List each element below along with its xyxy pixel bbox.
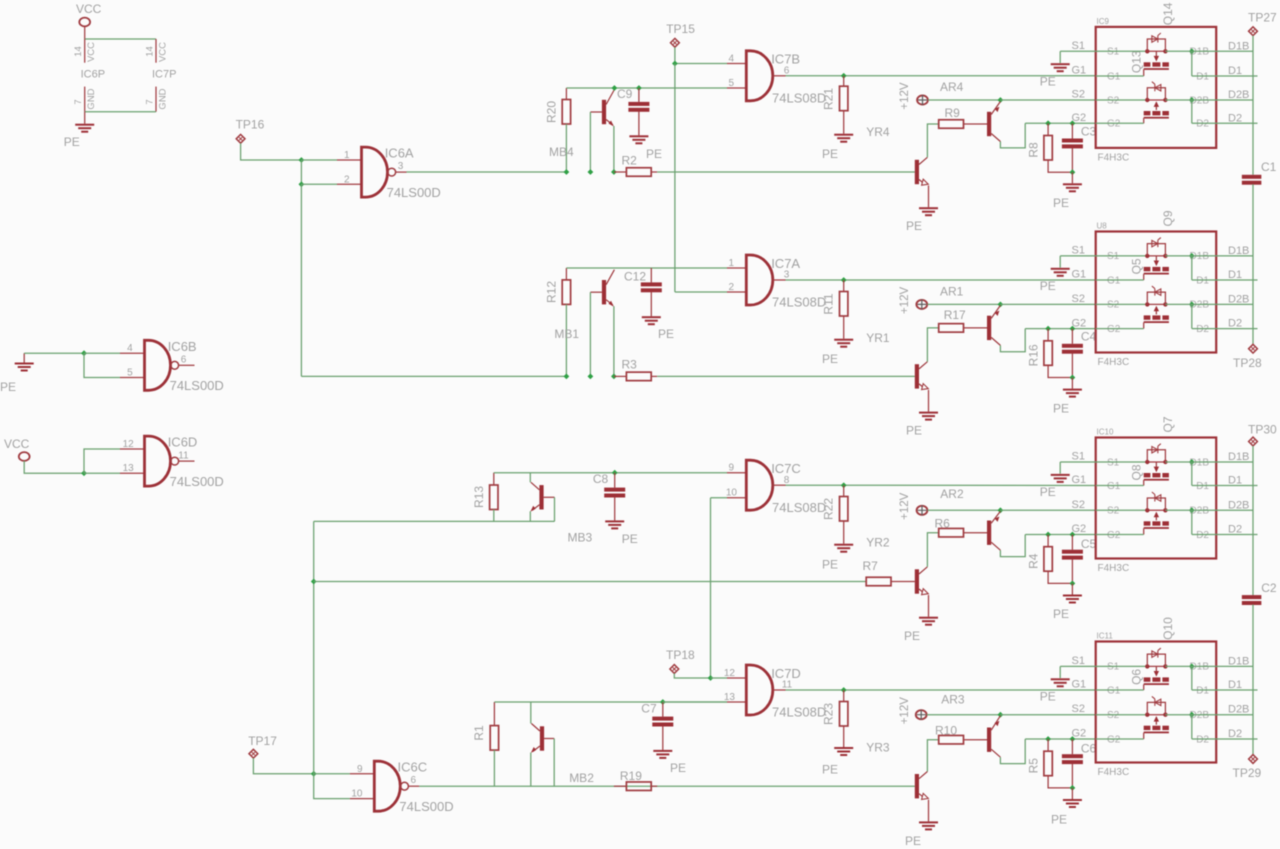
svg-text:Q9: Q9 (1161, 210, 1175, 226)
resistor R8 (1047, 123, 1049, 135)
svg-text:S2: S2 (1107, 95, 1120, 106)
svg-text:S2: S2 (1107, 506, 1120, 517)
svg-text:2: 2 (344, 174, 350, 185)
svg-text:AR4: AR4 (940, 80, 964, 94)
svg-text:VCC: VCC (76, 2, 102, 16)
IC6A pin 1 (337, 159, 362, 161)
wire (964, 123, 988, 125)
svg-text:F4H3C: F4H3C (1098, 357, 1130, 368)
svg-text:+12V: +12V (899, 286, 911, 314)
wire (24, 352, 84, 354)
wire (314, 773, 350, 775)
svg-text:Q10: Q10 (1161, 617, 1175, 640)
ground PE (1071, 788, 1073, 799)
junction (660, 699, 666, 705)
svg-text:YR2: YR2 (866, 536, 890, 550)
svg-text:8: 8 (784, 475, 790, 486)
wire (1000, 535, 1025, 557)
svg-text:D1: D1 (1228, 679, 1242, 691)
svg-text:C6: C6 (1081, 742, 1097, 756)
and gate IC7C 74LS08D (746, 460, 773, 510)
junction (299, 157, 305, 163)
junction (1070, 326, 1076, 332)
wire (1191, 462, 1193, 486)
nand gate IC6A 74LS00D (362, 147, 388, 197)
wire (1191, 666, 1193, 690)
svg-text:G2: G2 (1072, 112, 1087, 124)
svg-text:IC11: IC11 (1097, 632, 1114, 641)
wire rail (1252, 184, 1254, 344)
svg-text:D2: D2 (1196, 530, 1209, 541)
svg-text:G1: G1 (1072, 65, 1087, 77)
resistor R21 (843, 76, 845, 86)
svg-text:S1: S1 (1107, 251, 1120, 262)
svg-text:S2: S2 (1072, 89, 1085, 101)
junction (841, 277, 847, 283)
wire (613, 126, 615, 172)
junction (1189, 97, 1195, 103)
svg-text:MB2: MB2 (569, 771, 594, 785)
wire (84, 449, 120, 473)
svg-text:5: 5 (728, 78, 734, 89)
resistor R13 (493, 473, 495, 485)
svg-text:D2B: D2B (1228, 704, 1249, 716)
mosfet lower (1096, 714, 1148, 716)
junction (998, 507, 1004, 513)
svg-text:PE: PE (646, 147, 662, 161)
svg-text:YR1: YR1 (866, 331, 890, 345)
wire (241, 143, 302, 160)
wire (711, 497, 728, 499)
wire (84, 353, 120, 377)
wire (1000, 329, 1025, 352)
wire (613, 306, 615, 376)
svg-text:74LS08D: 74LS08D (772, 91, 826, 106)
ground PE (1071, 172, 1073, 183)
wire D2B (1165, 509, 1253, 511)
svg-text:11: 11 (782, 680, 793, 691)
wire (85, 111, 156, 113)
svg-text:Q6: Q6 (1130, 669, 1144, 685)
wire (300, 160, 302, 184)
junction (672, 61, 678, 67)
svg-text:R16: R16 (1026, 344, 1040, 366)
wire (1060, 50, 1096, 52)
transistor AR2 pnp (987, 521, 991, 545)
transistor AR2 npn (915, 569, 919, 593)
svg-text:PE: PE (1053, 401, 1069, 415)
svg-text:D2: D2 (1228, 112, 1242, 124)
transistor AR3 pnp (987, 728, 991, 752)
IC7A pin 1 (727, 267, 746, 269)
svg-text:PE: PE (822, 558, 838, 572)
wire D2B (1165, 714, 1253, 716)
wire (928, 99, 1000, 101)
wire (786, 484, 1096, 486)
wire (494, 472, 727, 474)
svg-text:R17: R17 (944, 308, 966, 322)
IC6D pin 12 (120, 448, 145, 450)
junction (1070, 785, 1076, 791)
mosfet lower (1096, 99, 1148, 101)
mosfet lower (1096, 303, 1148, 305)
svg-text:14: 14 (144, 46, 155, 57)
junction (564, 374, 570, 380)
svg-text:C3: C3 (1081, 124, 1097, 138)
ground PE (919, 617, 938, 619)
svg-text:6: 6 (411, 775, 417, 786)
svg-text:IC6C: IC6C (398, 760, 428, 775)
IC6A pin 2 (337, 183, 362, 185)
ground PE (834, 339, 853, 341)
wire (786, 75, 1096, 77)
wire (566, 267, 727, 269)
svg-text:G2: G2 (1107, 734, 1121, 745)
svg-text:G1: G1 (1107, 71, 1121, 82)
junction (1189, 48, 1195, 54)
wire (529, 473, 531, 483)
svg-text:R11: R11 (822, 293, 836, 314)
svg-text:IC9: IC9 (1097, 17, 1110, 26)
svg-text:S2: S2 (1072, 293, 1085, 305)
wire (964, 327, 988, 329)
wire (928, 509, 1001, 511)
svg-text:R12: R12 (545, 281, 559, 303)
svg-text:9: 9 (728, 463, 734, 474)
svg-text:G1: G1 (1072, 269, 1087, 281)
ground PE (653, 750, 672, 752)
wire (1000, 714, 1095, 716)
wire D1 (1192, 689, 1258, 691)
mosfet module IC10 F4H3C (1096, 438, 1217, 559)
junction (1070, 120, 1076, 126)
wire (1059, 462, 1061, 474)
wire (84, 26, 86, 39)
ground PE (1051, 268, 1070, 270)
junction (81, 350, 87, 356)
IC7A pin 3 output (773, 279, 786, 281)
svg-text:IC7B: IC7B (771, 52, 800, 67)
svg-text:7: 7 (144, 99, 155, 104)
svg-text:S1: S1 (1107, 662, 1120, 673)
junction (588, 169, 594, 175)
wire (657, 171, 915, 173)
svg-text:PE: PE (822, 147, 838, 161)
wire D2 (1192, 122, 1258, 124)
junction (564, 169, 570, 175)
svg-text:C8: C8 (593, 472, 609, 486)
svg-text:S1: S1 (1072, 244, 1085, 256)
wire (1000, 99, 1095, 101)
svg-text:12: 12 (724, 668, 736, 679)
mosfet module IC11 F4H3C (1096, 642, 1217, 763)
junction (636, 85, 642, 91)
svg-text:D1: D1 (1228, 65, 1242, 77)
junction (1070, 169, 1076, 175)
mosfet module U8 F4H3C (1096, 232, 1217, 353)
junction (1070, 375, 1076, 381)
svg-text:F4H3C: F4H3C (1098, 767, 1130, 778)
svg-text:VCC: VCC (86, 42, 97, 62)
svg-text:IC10: IC10 (1097, 428, 1114, 437)
svg-text:TP28: TP28 (1233, 356, 1262, 370)
resistor R11 (843, 280, 845, 292)
svg-text:1: 1 (344, 150, 350, 161)
svg-text:D1: D1 (1196, 685, 1209, 696)
ground PE (629, 135, 648, 137)
svg-text:+12V: +12V (899, 82, 911, 110)
ground PE (919, 821, 938, 823)
svg-text:R5: R5 (1026, 758, 1040, 774)
junction (311, 579, 317, 585)
svg-text:AR2: AR2 (940, 487, 964, 501)
IC6B pin 5 (120, 377, 145, 379)
svg-text:10: 10 (726, 488, 738, 499)
junction (1045, 736, 1051, 742)
junction (998, 97, 1004, 103)
junction (311, 771, 317, 777)
IC7P power pin GND 7 (155, 87, 157, 112)
svg-text:D1B: D1B (1228, 40, 1249, 52)
wire D1 (1192, 75, 1258, 77)
wire (675, 47, 727, 63)
wire (927, 303, 1000, 305)
svg-text:G2: G2 (1107, 530, 1121, 541)
ground PE (919, 412, 938, 414)
svg-text:AR3: AR3 (941, 693, 965, 707)
svg-text:D2B: D2B (1228, 499, 1249, 511)
ground PE (919, 207, 938, 209)
ground PE (1051, 678, 1070, 680)
junction (998, 302, 1004, 308)
svg-text:TP15: TP15 (666, 22, 695, 36)
svg-text:YR3: YR3 (866, 741, 890, 755)
svg-text:Q7: Q7 (1161, 416, 1175, 432)
wire (1000, 303, 1095, 305)
IC6D pin 11 output (179, 460, 195, 462)
IC7D pin 12 (727, 677, 746, 679)
wire (1059, 256, 1061, 268)
wire (553, 739, 555, 787)
svg-text:PE: PE (1040, 689, 1056, 703)
svg-text:S2: S2 (1107, 710, 1120, 721)
wire D2 (1192, 534, 1258, 536)
svg-text:IC6P: IC6P (81, 69, 105, 81)
svg-text:C9: C9 (617, 87, 633, 101)
wire (1059, 51, 1061, 63)
junction (1189, 507, 1195, 513)
wire (1191, 100, 1193, 123)
svg-text:D2: D2 (1196, 324, 1209, 335)
svg-text:PE: PE (904, 629, 920, 643)
svg-text:74LS08D: 74LS08D (772, 705, 826, 720)
svg-text:G1: G1 (1107, 685, 1121, 696)
wire D2 (1192, 738, 1258, 740)
svg-text:R20: R20 (545, 101, 559, 123)
ground PE (15, 363, 34, 365)
junction (1189, 712, 1195, 718)
svg-text:PE: PE (658, 327, 674, 341)
svg-text:1: 1 (728, 258, 734, 269)
svg-text:PE: PE (1053, 196, 1069, 210)
wire D2 (1192, 328, 1258, 330)
ground PE (1071, 583, 1073, 594)
wire (964, 739, 988, 741)
svg-text:PE: PE (906, 423, 922, 437)
resistor R16 (1047, 329, 1049, 341)
resistor R22 (843, 485, 845, 496)
junction (611, 169, 617, 175)
svg-text:R22: R22 (822, 498, 836, 520)
svg-text:Q5: Q5 (1130, 258, 1144, 274)
svg-text:U8: U8 (1097, 222, 1108, 231)
junction (611, 374, 617, 380)
svg-text:D2: D2 (1228, 524, 1242, 536)
resistor R1 (493, 702, 495, 726)
svg-text:3: 3 (784, 270, 790, 281)
svg-text:MB4: MB4 (549, 145, 574, 159)
IC7B pin 6 output (773, 75, 786, 77)
wire (1025, 122, 1096, 124)
transistor AR4 pnp (987, 112, 991, 136)
wire (1191, 510, 1193, 534)
svg-text:11: 11 (178, 450, 189, 461)
svg-text:R9: R9 (945, 106, 961, 120)
IC7D pin 11 output (773, 689, 786, 691)
svg-text:MB3: MB3 (568, 531, 593, 545)
mosfet lower (1096, 509, 1148, 511)
svg-text:Q8: Q8 (1130, 464, 1144, 480)
svg-text:C7: C7 (641, 702, 657, 716)
svg-text:TP30: TP30 (1248, 423, 1277, 437)
wire (530, 753, 532, 787)
IC7C pin 9 (727, 472, 746, 474)
svg-text:R1: R1 (472, 725, 486, 741)
svg-text:PE: PE (64, 135, 80, 149)
svg-text:R2: R2 (622, 154, 638, 168)
junction (841, 482, 847, 488)
wire (301, 183, 337, 185)
transistor AR4 npn (915, 160, 919, 184)
svg-text:TP18: TP18 (666, 648, 695, 662)
IC6C pin 6 output (409, 785, 420, 787)
svg-text:74LS00D: 74LS00D (170, 378, 224, 393)
junction (1070, 736, 1076, 742)
svg-text:R23: R23 (822, 703, 836, 725)
wire D2B (1165, 303, 1253, 305)
svg-text:74LS00D: 74LS00D (399, 799, 453, 814)
svg-text:S1: S1 (1107, 457, 1120, 468)
wire (301, 375, 566, 377)
and gate IC7A 74LS08D (746, 255, 773, 305)
resistor R20 (565, 88, 567, 100)
wire (253, 758, 313, 774)
svg-text:TP16: TP16 (236, 118, 265, 132)
wire (927, 328, 938, 362)
svg-text:TP29: TP29 (1233, 766, 1262, 780)
svg-text:F4H3C: F4H3C (1098, 152, 1130, 163)
wire (927, 124, 938, 157)
svg-text:S2: S2 (1072, 499, 1085, 511)
resistor R5 (1047, 739, 1049, 751)
wire D1B (1165, 50, 1253, 52)
mosfet module IC9 F4H3C (1096, 27, 1217, 148)
wire (530, 702, 532, 724)
svg-text:D1B: D1B (1228, 245, 1249, 257)
svg-text:C1: C1 (1261, 160, 1277, 174)
wire (1060, 461, 1096, 463)
wire D2B (1165, 99, 1253, 101)
IC6P power pin GND 7 (84, 87, 86, 112)
svg-text:S2: S2 (1107, 300, 1120, 311)
wire (674, 64, 676, 293)
wire (84, 472, 120, 474)
and gate IC7B 74LS08D (746, 51, 772, 101)
svg-text:G2: G2 (1107, 324, 1121, 335)
svg-text:G1: G1 (1107, 481, 1121, 492)
svg-text:5: 5 (127, 368, 133, 379)
svg-text:PE: PE (1040, 74, 1056, 88)
svg-text:D2B: D2B (1228, 89, 1249, 101)
wire (1060, 665, 1096, 667)
junction (841, 687, 847, 693)
wire (927, 533, 938, 567)
resistor R23 (843, 690, 845, 702)
IC6D pin 13 (120, 472, 145, 474)
svg-text:PE: PE (1053, 607, 1069, 621)
svg-text:VCC: VCC (4, 437, 30, 451)
wire rail (1252, 605, 1254, 755)
junction (1045, 532, 1051, 538)
svg-text:S1: S1 (1072, 655, 1085, 667)
svg-text:R8: R8 (1026, 142, 1040, 158)
svg-text:2: 2 (728, 282, 734, 293)
IC6C pin 9 (350, 773, 374, 775)
wire (84, 352, 120, 354)
ground PE (834, 747, 853, 749)
wire (1025, 738, 1096, 740)
wire (529, 511, 531, 521)
wire (1025, 328, 1096, 330)
wire (964, 532, 988, 534)
svg-text:C4: C4 (1081, 330, 1097, 344)
svg-text:74LS00D: 74LS00D (170, 474, 224, 489)
svg-text:D2B: D2B (1228, 293, 1249, 305)
wire (419, 785, 915, 787)
ground PE (642, 316, 661, 318)
wire (710, 498, 712, 678)
svg-text:3: 3 (398, 161, 404, 172)
ground PE (1051, 474, 1070, 476)
wire (1191, 256, 1193, 280)
wire (494, 701, 727, 703)
wire rail (1252, 446, 1254, 595)
svg-text:F4H3C: F4H3C (1098, 563, 1130, 574)
ground PE (1071, 378, 1073, 389)
svg-text:D2: D2 (1196, 119, 1209, 130)
svg-text:G1: G1 (1072, 474, 1087, 486)
svg-text:IC6B: IC6B (168, 339, 197, 354)
wire (674, 673, 710, 678)
junction (1189, 459, 1195, 465)
IC6P power pin VCC 14 (84, 39, 86, 63)
svg-text:12: 12 (123, 439, 135, 450)
svg-text:Q13: Q13 (1130, 50, 1144, 73)
wire rail (1252, 36, 1254, 175)
IC6A pin 3 output (396, 171, 407, 173)
svg-text:GND: GND (86, 88, 97, 109)
svg-text:S1: S1 (1107, 47, 1120, 58)
